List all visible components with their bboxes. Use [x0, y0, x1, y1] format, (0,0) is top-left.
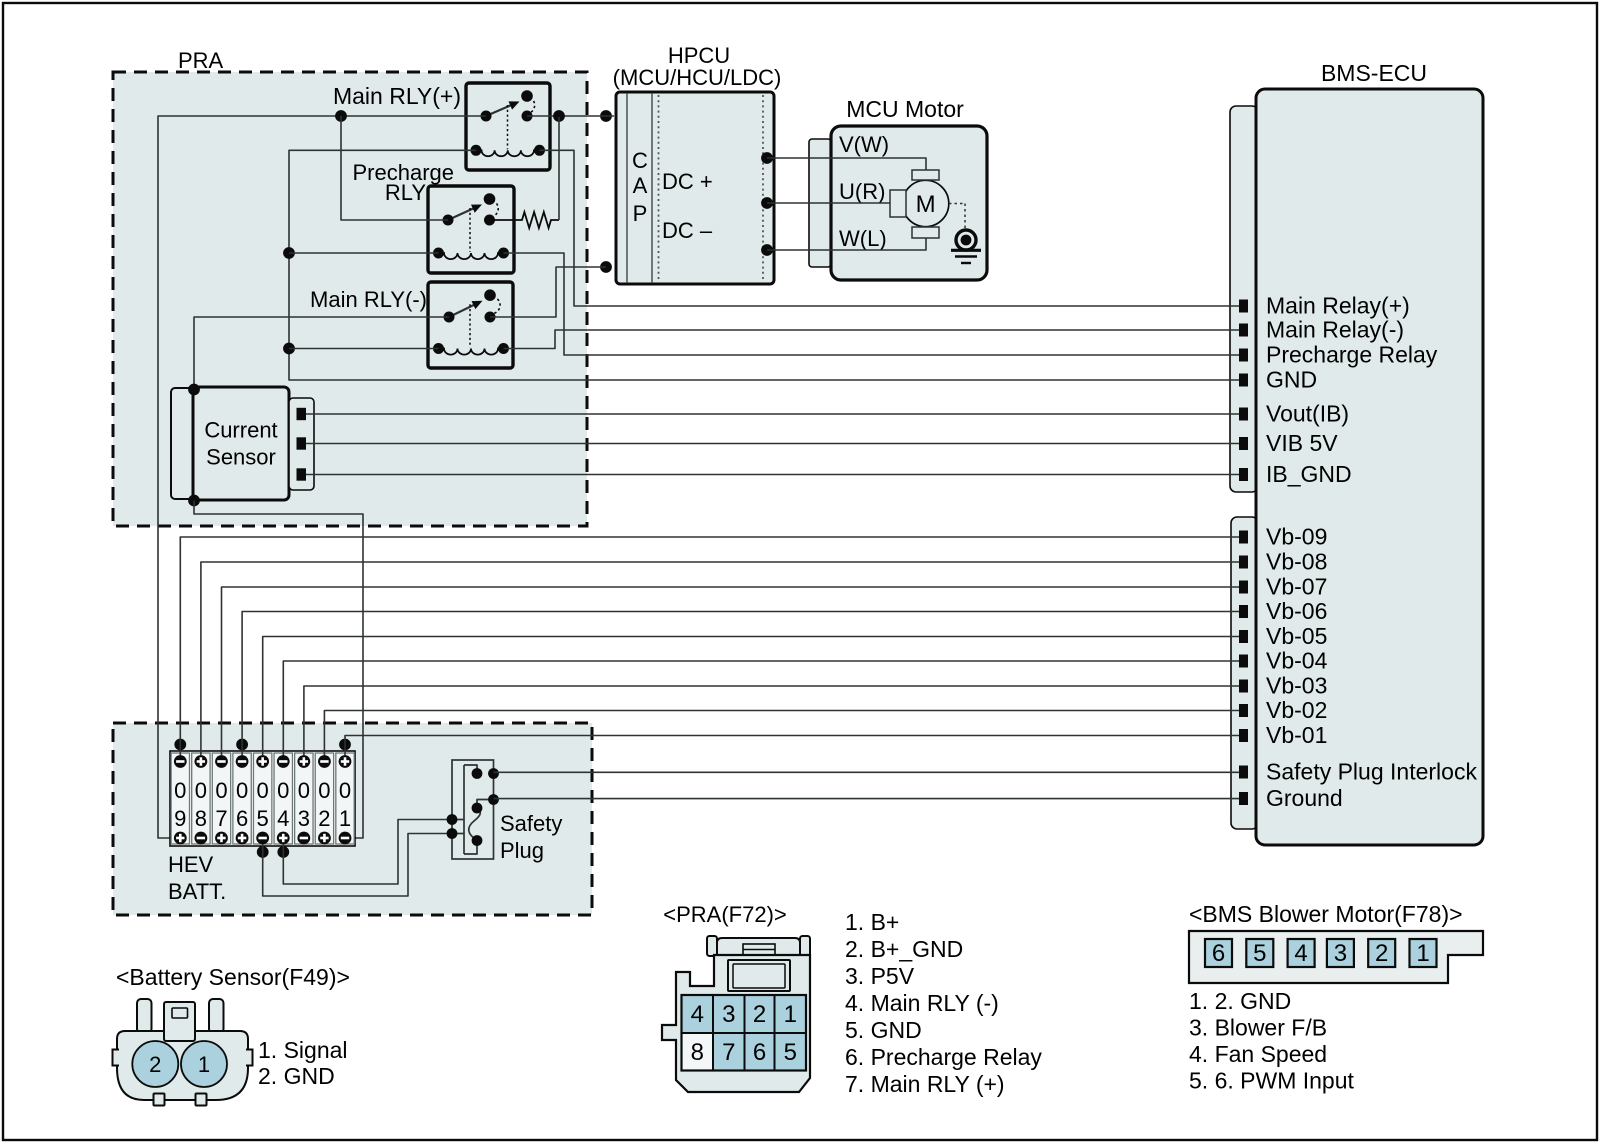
- node HPCU V out: [761, 152, 773, 164]
- svg-text:Ground: Ground: [1266, 785, 1343, 811]
- current sensor pin 3: [297, 468, 307, 480]
- BMS-ECU pin Main Relay(+): [1239, 300, 1248, 313]
- svg-text:DC –: DC –: [662, 218, 713, 243]
- svg-text:Safety: Safety: [500, 811, 562, 836]
- motor M circle: [902, 180, 948, 226]
- svg-text:0: 0: [277, 778, 289, 803]
- node resistor junction: [553, 110, 565, 122]
- svg-text:1: 1: [339, 806, 351, 831]
- wire Vb-06: [242, 612, 1239, 756]
- svg-text:1: 1: [198, 1052, 210, 1077]
- node battery cell05 bottom: [257, 846, 269, 858]
- svg-text:C: C: [632, 148, 648, 173]
- wire cell04 to safety plug: [283, 820, 452, 885]
- battery outer box: [170, 751, 355, 846]
- wire Vb-09: [180, 537, 1239, 756]
- wire relay+ to HPCU DC+: [527, 115, 614, 117]
- HPCU inner line 2: [651, 93, 653, 283]
- svg-text:Vb-06: Vb-06: [1266, 598, 1327, 624]
- svg-text:6. Precharge Relay: 6. Precharge Relay: [845, 1044, 1042, 1070]
- node HPCU W out: [761, 244, 773, 256]
- svg-text:4: 4: [691, 1001, 704, 1028]
- svg-text:V(W): V(W): [839, 132, 889, 157]
- wire Vb-02: [324, 711, 1239, 756]
- wire HPCU V to motor: [767, 158, 926, 170]
- wire Vb-08: [201, 562, 1239, 756]
- battery cell 8: [192, 753, 210, 844]
- BMS-ECU pin Vb-08: [1239, 556, 1248, 569]
- node precharge branch: [335, 110, 347, 122]
- svg-text:0: 0: [257, 778, 269, 803]
- svg-text:Vout(IB): Vout(IB): [1266, 401, 1349, 427]
- svg-text:7: 7: [722, 1039, 735, 1066]
- wire main- coil to BMS Main Relay(-): [504, 330, 1240, 349]
- current sensor pin 2: [297, 437, 307, 449]
- wire main- common to current sensor: [194, 317, 449, 389]
- svg-text:1. 2. GND: 1. 2. GND: [1189, 988, 1291, 1014]
- wire Vb-03: [304, 686, 1239, 756]
- svg-text:0: 0: [215, 778, 227, 803]
- svg-text:0: 0: [236, 778, 248, 803]
- svg-text:W(L): W(L): [839, 226, 887, 251]
- svg-text:Main Relay(+): Main Relay(+): [1266, 293, 1410, 319]
- svg-text:0: 0: [298, 778, 310, 803]
- svg-text:Vb-04: Vb-04: [1266, 648, 1328, 674]
- node HPCU DC- input: [600, 261, 612, 273]
- svg-text:MCU Motor: MCU Motor: [846, 96, 964, 122]
- BMS-ECU pin Vb-07: [1239, 581, 1248, 594]
- BMS-ECU pin Ground: [1239, 792, 1248, 805]
- svg-text:3: 3: [298, 806, 310, 831]
- svg-text:RLY: RLY: [385, 180, 426, 205]
- svg-text:5: 5: [784, 1039, 797, 1066]
- wire safety plug interlock to BMS: [494, 771, 1240, 773]
- safety plug: [452, 760, 494, 859]
- svg-text:8: 8: [195, 806, 207, 831]
- svg-text:2: 2: [753, 1001, 766, 1028]
- wire Vb-04: [283, 661, 1239, 756]
- svg-text:Main Relay(-): Main Relay(-): [1266, 317, 1404, 343]
- wire precharge coil to BMS Precharge Relay: [504, 253, 1240, 355]
- svg-text:BATT.: BATT.: [168, 879, 226, 904]
- BMS-ECU connector strip upper: [1230, 106, 1258, 492]
- BMS-ECU box: [1256, 89, 1483, 845]
- MCU Motor box: [831, 126, 987, 280]
- svg-text:Safety Plug Interlock: Safety Plug Interlock: [1266, 759, 1477, 785]
- relay Main RLY(+): [466, 83, 550, 170]
- node HPCU U out: [761, 197, 773, 209]
- node sensor bottom: [188, 495, 200, 507]
- svg-text:0: 0: [318, 778, 330, 803]
- svg-text:1. B+: 1. B+: [845, 909, 899, 935]
- battery cell 7: [212, 753, 230, 844]
- svg-text:1: 1: [784, 1001, 797, 1028]
- svg-text:(MCU/HCU/LDC): (MCU/HCU/LDC): [613, 65, 782, 90]
- HEV BATT block: [113, 723, 592, 915]
- svg-text:3: 3: [722, 1001, 735, 1028]
- svg-text:5. GND: 5. GND: [845, 1017, 922, 1043]
- svg-text:9: 9: [174, 806, 186, 831]
- BMS-ECU pin Precharge Relay: [1239, 349, 1248, 362]
- svg-text:3. P5V: 3. P5V: [845, 963, 915, 989]
- svg-text:Vb-07: Vb-07: [1266, 574, 1327, 600]
- node coil junction precharge: [283, 247, 295, 259]
- motor ground dotted wire: [949, 203, 965, 205]
- svg-text:<Battery Sensor(F49)>: <Battery Sensor(F49)>: [116, 964, 350, 990]
- HPCU dotted line left: [658, 95, 660, 281]
- svg-text:3: 3: [1334, 940, 1347, 967]
- svg-text:6: 6: [236, 806, 248, 831]
- svg-text:2: 2: [1375, 940, 1388, 967]
- svg-text:VIB 5V: VIB 5V: [1266, 430, 1338, 456]
- BMS-ECU pin IB_GND: [1239, 468, 1248, 481]
- wire main+ bus (battery to relay): [158, 116, 486, 838]
- svg-text:Vb-01: Vb-01: [1266, 722, 1327, 748]
- BMS-ECU pin GND: [1239, 374, 1248, 387]
- svg-text:4: 4: [277, 806, 289, 831]
- BMS-ECU pin Vb-04: [1239, 655, 1248, 668]
- HPCU box: [616, 92, 774, 284]
- svg-text:Vb-03: Vb-03: [1266, 673, 1327, 699]
- wire cell05 to safety plug: [263, 834, 452, 897]
- svg-text:4. Fan Speed: 4. Fan Speed: [1189, 1041, 1327, 1067]
- svg-text:<BMS Blower Motor(F78)>: <BMS Blower Motor(F78)>: [1189, 901, 1463, 927]
- wire safety plug ground to BMS: [494, 798, 1240, 800]
- battery cell 6: [233, 753, 251, 844]
- node HPCU DC+ input: [600, 110, 612, 122]
- node battery cell06 top: [236, 739, 248, 751]
- svg-text:8: 8: [691, 1039, 704, 1066]
- battery cell 5: [253, 753, 271, 844]
- svg-text:2. GND: 2. GND: [258, 1063, 335, 1089]
- wire HPCU DC- to main- relay: [490, 267, 606, 317]
- svg-text:HEV: HEV: [168, 852, 214, 877]
- svg-text:4: 4: [1294, 940, 1307, 967]
- relay Main RLY(-): [428, 282, 513, 368]
- node sensor top: [188, 384, 200, 396]
- svg-text:1. Signal: 1. Signal: [258, 1037, 348, 1063]
- svg-text:Sensor: Sensor: [206, 445, 276, 470]
- resistor precharge: [490, 212, 559, 228]
- svg-text:3. Blower F/B: 3. Blower F/B: [1189, 1015, 1327, 1041]
- wire Vb-05: [263, 637, 1239, 756]
- wire coil left main-: [289, 348, 439, 350]
- svg-text:Plug: Plug: [500, 838, 544, 863]
- HPCU dotted line right: [762, 95, 764, 281]
- svg-text:1: 1: [1416, 940, 1429, 967]
- wire Vb-07: [222, 587, 1240, 756]
- current sensor busbar: [171, 388, 194, 499]
- motor brush top: [912, 170, 939, 180]
- wire sensor IB_GND: [306, 474, 1239, 476]
- BMS-ECU pin Vb-05: [1239, 630, 1248, 643]
- HPCU inner line 1: [626, 93, 628, 283]
- svg-text:<PRA(F72)>: <PRA(F72)>: [663, 902, 787, 927]
- svg-text:5. 6. PWM Input: 5. 6. PWM Input: [1189, 1068, 1355, 1094]
- svg-text:Current: Current: [204, 418, 277, 443]
- node battery cell09 top: [174, 739, 186, 751]
- PRA block: [113, 72, 587, 526]
- node battery cell01 top: [339, 739, 351, 751]
- svg-text:BMS-ECU: BMS-ECU: [1321, 60, 1427, 86]
- svg-text:7: 7: [215, 806, 227, 831]
- battery cell 3: [295, 753, 313, 844]
- svg-text:Vb-02: Vb-02: [1266, 697, 1327, 723]
- wire sensor VIB 5V: [306, 443, 1239, 445]
- MCU motor connector: [809, 139, 831, 267]
- svg-text:0: 0: [339, 778, 351, 803]
- svg-text:7. Main RLY (+): 7. Main RLY (+): [845, 1071, 1005, 1097]
- svg-text:PRA: PRA: [178, 48, 224, 73]
- node battery cell04 bottom: [277, 846, 289, 858]
- svg-text:A: A: [633, 173, 648, 198]
- svg-text:GND: GND: [1266, 367, 1317, 393]
- svg-text:4. Main RLY (-): 4. Main RLY (-): [845, 990, 999, 1016]
- motor brush bottom: [912, 227, 939, 238]
- wire HPCU U to motor: [767, 202, 890, 204]
- wire relay+ coil to BMS Main Relay(+): [540, 150, 1240, 306]
- ground symbol: [956, 230, 976, 250]
- svg-text:2. B+_GND: 2. B+_GND: [845, 936, 963, 962]
- svg-text:6: 6: [1212, 940, 1225, 967]
- BMS-ECU pin Safety Plug Interlock: [1239, 766, 1248, 779]
- battery cell 4: [274, 753, 292, 844]
- battery cell 2: [315, 753, 333, 844]
- svg-text:Main RLY(-): Main RLY(-): [310, 287, 427, 312]
- BMS-ECU pin Vout(IB): [1239, 408, 1248, 421]
- svg-text:Vb-08: Vb-08: [1266, 549, 1327, 575]
- svg-text:Vb-05: Vb-05: [1266, 623, 1327, 649]
- svg-text:Vb-09: Vb-09: [1266, 524, 1327, 550]
- svg-text:5: 5: [1253, 940, 1266, 967]
- svg-text:Precharge Relay: Precharge Relay: [1266, 342, 1438, 368]
- battery cell 1: [336, 753, 354, 844]
- svg-text:0: 0: [195, 778, 207, 803]
- svg-text:0: 0: [174, 778, 186, 803]
- BMS-ECU pin VIB 5V: [1239, 437, 1248, 450]
- svg-text:Main RLY(+): Main RLY(+): [333, 83, 461, 109]
- svg-text:IB_GND: IB_GND: [1266, 461, 1352, 487]
- svg-text:2: 2: [149, 1052, 161, 1077]
- svg-text:M: M: [916, 191, 936, 218]
- current sensor connector: [289, 398, 314, 490]
- wire coil left precharge: [289, 252, 439, 254]
- svg-text:5: 5: [257, 806, 269, 831]
- BMS-ECU pin Vb-06: [1239, 605, 1248, 618]
- BMS-ECU pin Vb-01: [1239, 729, 1248, 742]
- wire HPCU W to motor: [767, 238, 926, 250]
- BMS-ECU pin Vb-09: [1239, 531, 1248, 544]
- node coil junction main-: [283, 343, 295, 355]
- svg-text:P: P: [633, 201, 648, 226]
- wire sensor to battery negative: [194, 501, 363, 839]
- BMS-ECU connector strip lower: [1231, 517, 1258, 829]
- BMS-ECU pin Vb-03: [1239, 680, 1248, 693]
- wire sensor Vout(IB): [306, 413, 1239, 415]
- motor brush left: [890, 190, 906, 217]
- current sensor pin 1: [297, 408, 307, 420]
- svg-text:DC +: DC +: [662, 169, 713, 194]
- wire coil common left: [289, 150, 1239, 380]
- battery cell 9: [171, 753, 189, 844]
- current sensor box: [193, 387, 289, 500]
- BMS-ECU pin Main Relay(-): [1239, 324, 1248, 337]
- relay Precharge RLY: [428, 186, 514, 273]
- BMS-ECU pin Vb-02: [1239, 704, 1248, 717]
- wire resistor up: [558, 117, 560, 220]
- wire Vb-01: [345, 736, 1239, 756]
- svg-text:6: 6: [753, 1039, 766, 1066]
- svg-text:U(R): U(R): [839, 179, 885, 204]
- svg-text:2: 2: [318, 806, 330, 831]
- wire precharge branch: [341, 116, 448, 220]
